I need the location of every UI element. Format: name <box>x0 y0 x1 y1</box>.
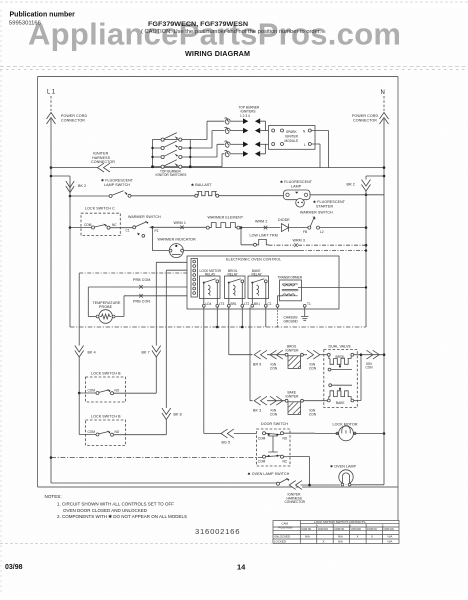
wire lamp to N drop <box>351 434 384 485</box>
svg-text:LAMP SWITCH: LAMP SWITCH <box>104 183 130 187</box>
svg-text:✱ FLUORESCENT: ✱ FLUORESCENT <box>280 180 313 184</box>
svg-text:BR 2: BR 2 <box>347 183 355 187</box>
wire warmer indicator drop <box>151 227 153 250</box>
scan artifact line below title <box>0 66 468 68</box>
svg-text:CON: CON <box>270 366 278 370</box>
EOC bottom terminals <box>202 302 271 307</box>
svg-text:COM NC: COM NC <box>301 528 311 531</box>
svg-text:NO: NO <box>115 389 120 393</box>
dual valve bake coil <box>327 387 353 405</box>
svg-text:CONNECTOR: CONNECTOR <box>285 500 306 504</box>
svg-text:COM: COM <box>258 459 266 463</box>
L1 lead-in dashed wire <box>50 96 52 111</box>
svg-text:COM: COM <box>88 389 96 393</box>
lock switch B labels COM NO <box>88 389 120 393</box>
svg-text:WARMER INDICATOR: WARMER INDICATOR <box>158 238 197 242</box>
spark igniter module U1 <box>269 126 316 150</box>
warmer element R1 <box>206 223 240 230</box>
svg-text:B: B <box>349 524 351 528</box>
connector IGN CON bake (chevrons) <box>270 396 283 405</box>
svg-text:A: A <box>316 524 318 528</box>
igniter harness connector label <box>91 152 115 165</box>
bake igniter E2 (hatched) <box>285 399 303 414</box>
door switch box (dashed) <box>257 429 291 466</box>
svg-text:FGF379WECN, FGF379WESN: FGF379WECN, FGF379WESN <box>148 21 248 28</box>
svg-text:N: N <box>381 90 385 96</box>
wire EOC terminal to lock circuit 1 <box>156 262 191 393</box>
node valve link dot <box>360 353 363 356</box>
svg-text:03/98: 03/98 <box>5 564 23 571</box>
svg-text:( CAUTION: Use the part number: ( CAUTION: Use the part number and not t… <box>141 29 321 35</box>
oven lamp DS3 <box>339 470 353 486</box>
transformer ground terminal <box>276 304 279 307</box>
electronic oven control box <box>187 256 339 309</box>
svg-text:1 2 3 4: 1 2 3 4 <box>240 114 250 118</box>
door switch upper labels COM NO <box>258 436 288 440</box>
wire switch row2 to igniter 2 <box>190 131 224 148</box>
svg-text:COM: COM <box>88 430 96 434</box>
node transformer N dot <box>365 286 367 288</box>
igniter 1 (coil and spark gap) <box>225 118 266 131</box>
svg-text:NC: NC <box>283 459 288 463</box>
wire switch row1 to igniter 1 <box>190 121 224 139</box>
svg-text:14: 14 <box>237 563 246 572</box>
svg-text:LOCKED: LOCKED <box>274 539 286 543</box>
lock motor switch contacts table <box>273 521 399 544</box>
svg-text:LD4: LD4 <box>206 302 212 306</box>
top burner ignitor switches box <box>153 140 191 167</box>
power cord connector L1 (chevron) <box>47 113 56 125</box>
svg-text:CONNECTOR: CONNECTOR <box>353 119 377 123</box>
svg-text:CONNECTOR: CONNECTOR <box>91 160 115 164</box>
svg-text:BK1: BK1 <box>254 302 260 306</box>
connector BG 5 (chevrons) <box>221 429 234 438</box>
wire N bus vertical <box>383 119 385 434</box>
wire switch row4 to igniter 4 <box>190 154 224 167</box>
wire module L drop <box>311 144 320 168</box>
svg-text:WRM 1: WRM 1 <box>174 221 186 225</box>
wire probe con <box>116 296 192 317</box>
svg-text:PROBE: PROBE <box>99 305 113 309</box>
spark igniter module label <box>285 130 299 143</box>
wire bottom bus (dash-dot) <box>51 457 263 459</box>
connector igniter harness (chevrons) <box>289 481 302 490</box>
svg-text:BR1: BR1 <box>231 302 237 306</box>
svg-text:BK 2: BK 2 <box>78 184 86 188</box>
svg-text:LOCK SWITCH B: LOCK SWITCH B <box>91 415 121 419</box>
svg-text:WARMER ELEMENT: WARMER ELEMENT <box>208 216 244 220</box>
svg-text:LT3: LT3 <box>219 302 224 306</box>
wire valve right link <box>354 355 361 401</box>
svg-text:COM: COM <box>258 436 266 440</box>
label IGN CON bake valve side <box>309 409 317 417</box>
warmer cutoff terminal labels FB L2 <box>303 230 324 234</box>
chassis bus (dash-dot) <box>70 326 366 328</box>
door switch upper contacts <box>263 432 316 436</box>
wire door NC to lamp row <box>288 457 310 486</box>
wire L1 to lamp-switch branch <box>51 176 70 196</box>
node junction lamp-switch <box>69 195 72 198</box>
connector BK 7 (chevron down) <box>152 346 161 358</box>
ballast L1 (inductor) <box>195 191 219 197</box>
label IGN CON broil <box>270 363 278 371</box>
svg-text:POWER CORD: POWER CORD <box>61 114 87 118</box>
connector BR 2 (chevron down) <box>362 180 371 192</box>
wire branch to lock switch C <box>69 196 71 228</box>
wire to dual valve <box>320 354 328 356</box>
connector BR 9 (chevrons on broil row) <box>254 350 267 359</box>
svg-text:316002166: 316002166 <box>195 527 240 536</box>
svg-text:ELECTRONIC OVEN CONTROL: ELECTRONIC OVEN CONTROL <box>226 257 281 261</box>
wire low limit branch <box>241 228 254 245</box>
wire valve to N bus <box>361 354 384 356</box>
node L1 bottom junction <box>50 456 53 459</box>
svg-text:POWER CORD: POWER CORD <box>352 114 378 118</box>
switch row 4 <box>161 160 182 169</box>
connector BK 8 (chevron down) <box>162 408 171 420</box>
scan artifact line above frame <box>0 69 468 71</box>
bake igniter label <box>286 391 300 399</box>
wire ballast to fluorescent lamp <box>219 195 283 197</box>
svg-text:LOCK SWITCH C: LOCK SWITCH C <box>85 207 115 211</box>
svg-text:X: X <box>323 539 325 543</box>
svg-text:✱ FLUORESCENT: ✱ FLUORESCENT <box>313 200 346 204</box>
svg-text:DOOR SWITCH: DOOR SWITCH <box>261 422 288 426</box>
wire probe dashed feed <box>79 272 191 274</box>
svg-text:✱ OVEN LAMP SWITCH: ✱ OVEN LAMP SWITCH <box>248 472 290 476</box>
node chassis bus dots <box>216 326 244 329</box>
svg-text:COM: COM <box>84 223 92 227</box>
svg-text:BAKE: BAKE <box>336 401 345 405</box>
svg-text:2. COMPONENTS WITH ✱ DO NOT A: 2. COMPONENTS WITH ✱ DO NOT APPEAR ON AL… <box>57 514 187 519</box>
svg-text:T1: T1 <box>307 302 311 306</box>
label IGN CON valve side <box>309 363 317 371</box>
switch row 2 <box>153 141 191 150</box>
svg-text:N/A: N/A <box>388 535 393 539</box>
spark igniter module terminals left <box>272 129 284 146</box>
svg-text:PRB COM: PRB COM <box>133 278 150 282</box>
svg-text:COM NC: COM NC <box>367 528 377 531</box>
wire relay LT1 drop <box>216 307 218 327</box>
lock motor B1 <box>336 426 356 441</box>
wire element to diode <box>240 227 281 229</box>
top burner igniters label <box>239 106 260 118</box>
svg-text:WIRING DIAGRAM: WIRING DIAGRAM <box>185 49 250 58</box>
wire aux stub drop <box>265 307 267 327</box>
svg-text:CON: CON <box>270 412 278 416</box>
power cord connector N (chevron) <box>380 113 389 125</box>
wire L1 bus vertical <box>50 119 52 483</box>
scan artifact line bottom <box>0 543 272 545</box>
svg-text:NOTES:: NOTES: <box>45 494 62 499</box>
wire L1 bus to oven lamp switch <box>51 482 277 484</box>
power cord connector L1 label <box>61 114 87 123</box>
node box corner dots <box>151 147 192 168</box>
oven lamp switch S3 <box>277 478 290 485</box>
svg-text:L: L <box>304 143 306 147</box>
wire lock switch coms link <box>78 393 80 435</box>
svg-text:COM NO: COM NO <box>384 528 394 531</box>
warmer cutoff switch <box>308 216 366 229</box>
warmer indicator DS2 <box>152 244 183 258</box>
svg-text:WARMER SWITCH: WARMER SWITCH <box>300 211 333 215</box>
igniter 4 (coil and spark gap) <box>225 144 266 157</box>
lock switch B contacts <box>79 389 156 395</box>
wire to warmer element <box>152 226 206 228</box>
igniter 3 (coil and spark gap) <box>225 141 269 147</box>
bake relay K3 <box>248 276 269 305</box>
dual valve box (dashed) <box>324 350 358 408</box>
svg-text:FB: FB <box>303 230 307 234</box>
svg-text:N/A: N/A <box>338 539 343 543</box>
wire N to inner branch <box>366 176 384 327</box>
svg-text:IGNITER: IGNITER <box>285 135 299 139</box>
svg-text:DUAL VALVE: DUAL VALVE <box>329 344 352 348</box>
svg-text:BK 8: BK 8 <box>174 413 182 417</box>
wire lamp to N branch <box>310 194 384 196</box>
svg-text:BG 5: BG 5 <box>222 441 231 445</box>
svg-text:LOW LIMIT TRM: LOW LIMIT TRM <box>250 234 278 238</box>
lock switch C labels COM NC <box>84 223 117 227</box>
connector BK 3 (chevrons on bake row) <box>254 396 267 405</box>
connector BK 2 (chevron down) <box>66 181 74 193</box>
svg-text:COM NC: COM NC <box>334 528 344 531</box>
svg-text:NO: NO <box>115 430 120 434</box>
svg-text:CON: CON <box>309 366 317 370</box>
broil relay K2 <box>225 276 246 305</box>
wire probe dashed vertical <box>78 273 80 393</box>
lock switch B box (dashed) <box>86 377 126 402</box>
igniter harness connector label <box>285 493 306 505</box>
connector IGN CON broil (chevrons) <box>270 350 283 359</box>
wire broil relay drop <box>229 307 253 355</box>
svg-text:IGNITER: IGNITER <box>286 348 300 352</box>
svg-text:COM NO: COM NO <box>318 528 328 531</box>
connector IGN CON valve side (chevrons) <box>307 350 320 359</box>
wire module N to neutral row <box>311 131 328 168</box>
door switch actuator link <box>268 436 277 452</box>
node junction L1/neutral-row <box>50 166 53 169</box>
svg-text:C1: C1 <box>268 302 272 306</box>
svg-text:LOCK SWITCH B: LOCK SWITCH B <box>91 372 121 376</box>
dual valve middle terminals <box>328 368 352 386</box>
svg-text:WRM 2: WRM 2 <box>255 220 267 224</box>
svg-text:C1: C1 <box>126 229 130 233</box>
diode D1 <box>282 224 308 232</box>
lock switch A labels COM NO <box>88 430 120 434</box>
svg-text:N/A: N/A <box>338 535 343 539</box>
fluorescent lamp switch S1 <box>70 191 195 198</box>
svg-text:LAMP: LAMP <box>291 185 302 189</box>
svg-text:X: X <box>357 535 359 539</box>
svg-text:LT2: LT2 <box>244 302 249 306</box>
svg-text:MODULE: MODULE <box>285 139 299 143</box>
splice PRB COM <box>139 285 142 289</box>
wire relay to door switch row <box>204 433 257 435</box>
switch row 3 <box>153 150 191 159</box>
spark igniter module terminals right with N and L <box>308 129 311 146</box>
scan artifact line top <box>0 1 468 3</box>
wire branch to chassis bus <box>69 228 71 328</box>
wire probe com <box>88 287 191 317</box>
svg-text:PRB CON: PRB CON <box>133 300 150 304</box>
lock motor relay K1 <box>200 276 221 305</box>
svg-text:X: X <box>371 535 373 539</box>
svg-text:BK 3: BK 3 <box>253 409 261 413</box>
svg-text:P2: P2 <box>155 229 159 233</box>
lock switch C contacts <box>70 224 133 230</box>
svg-text:TRANSFORMER: TRANSFORMER <box>278 275 303 279</box>
wire broil igniter to valve connector <box>303 354 307 356</box>
svg-text:COM NO: COM NO <box>351 528 361 531</box>
node element junction <box>240 226 243 229</box>
warmer switch S2 <box>133 221 151 237</box>
label IGN CON right <box>366 362 374 370</box>
fluorescent starter <box>296 199 305 208</box>
lock switch C box (dashed) <box>81 213 120 235</box>
bake relay K3 label <box>252 269 263 277</box>
svg-text:L2: L2 <box>320 230 324 234</box>
node lock switch B com junction <box>78 392 81 395</box>
fluorescent starter label <box>313 200 346 209</box>
node junction L1 y=176 <box>50 175 53 178</box>
splice WRM3 <box>294 243 297 247</box>
chassis ground label <box>284 316 299 324</box>
diagram border frame <box>38 77 399 544</box>
svg-text:IGNITER: IGNITER <box>286 394 300 398</box>
svg-text:BK 7: BK 7 <box>142 351 150 355</box>
igniter 2 (coil and spark gap) <box>225 127 269 133</box>
broil igniter label <box>286 345 300 353</box>
svg-text:WRM 3: WRM 3 <box>293 239 305 243</box>
connector IGN CON right (chevrons to N) <box>367 350 380 359</box>
node inner branch dots <box>365 194 368 247</box>
svg-text:BR 9: BR 9 <box>253 363 261 367</box>
EOC terminal strip <box>191 259 198 298</box>
wire top row y=167.6 <box>51 167 384 169</box>
wire transformer drop (dotted) <box>277 307 279 327</box>
connector BK 4 (chevron down) <box>75 346 84 358</box>
igniter harness connector (top row chevrons) <box>98 163 111 172</box>
switch row 1 <box>161 133 182 142</box>
wire chevrons to bake igniter <box>267 400 286 402</box>
warmer switch terminal labels C1 P2 <box>126 229 159 233</box>
wire switch row3 to igniter 3 <box>190 144 224 157</box>
svg-text:N/A: N/A <box>388 539 393 543</box>
door switch lower contacts <box>263 455 288 458</box>
T1 chassis terminal <box>303 302 311 307</box>
fluorescent lamp label <box>280 180 313 189</box>
broil relay K2 label <box>228 269 239 277</box>
svg-text:OVEN DOOR CLOSED AND UNLOCKED: OVEN DOOR CLOSED AND UNLOCKED <box>63 508 148 513</box>
svg-text:IGNITOR SWITCHES: IGNITOR SWITCHES <box>156 173 187 177</box>
broil igniter E1 (hatched) <box>285 353 303 368</box>
wire connector to lamp <box>301 484 341 486</box>
low limit thermostat <box>254 239 269 246</box>
wire indicator to N branch <box>184 250 301 252</box>
lock switch A contacts <box>79 431 166 437</box>
chassis ground symbol <box>301 307 308 320</box>
splice WRM2 <box>264 226 267 230</box>
dual valve broil coil <box>327 353 353 367</box>
node warmer switch junction <box>151 226 154 229</box>
label IGN CON bake <box>270 409 278 417</box>
svg-text:DIODE: DIODE <box>278 218 290 222</box>
node N bus dots <box>383 166 386 435</box>
svg-text:NC: NC <box>112 223 117 227</box>
node indicator N dot <box>365 249 367 251</box>
wire relay LT2 drop <box>241 307 243 327</box>
lock switch A box (dashed) <box>86 420 126 446</box>
splice PRB CON <box>139 294 142 298</box>
svg-text:UNLOCKED: UNLOCKED <box>274 535 290 539</box>
wire lock motor leads <box>315 433 384 435</box>
fluorescent lamp switch label <box>101 179 134 188</box>
wire chevrons to broil igniter <box>267 354 286 356</box>
node lock switch C junction <box>69 226 72 229</box>
node lamp feed junction <box>308 484 311 487</box>
wire bake igniter to valve <box>303 400 327 402</box>
temperature probe RT1 <box>88 310 115 324</box>
svg-text:CON: CON <box>366 366 374 370</box>
svg-text:N/A: N/A <box>305 535 310 539</box>
fluorescent lamp DS1 <box>284 190 311 200</box>
svg-text:LOCK MOTOR SWITCH CONTACTS: LOCK MOTOR SWITCH CONTACTS <box>314 520 365 524</box>
svg-text:✱ BALLAST: ✱ BALLAST <box>191 183 212 187</box>
svg-text:GROUND: GROUND <box>284 319 299 323</box>
top burner ignitor switches label <box>156 169 187 177</box>
door switch lower labels COM NC <box>258 459 288 463</box>
scan artifact left edge <box>0 10 2 595</box>
svg-text:L 1: L 1 <box>47 90 56 96</box>
svg-text:CONNECTOR: CONNECTOR <box>61 119 85 123</box>
svg-text:BK 4: BK 4 <box>88 351 96 355</box>
svg-text:Publication number: Publication number <box>10 12 76 19</box>
svg-text:WARMER SWITCH: WARMER SWITCH <box>128 215 161 219</box>
N lead-in dashed wire <box>383 96 385 111</box>
wire low limit to N branch (dash-dot) <box>269 244 367 246</box>
temperature probe label <box>93 301 121 309</box>
splice WRM1 <box>180 226 183 230</box>
power cord connector N label <box>352 114 378 123</box>
lock motor relay K1 label <box>200 269 222 277</box>
svg-text:STARTER: STARTER <box>316 205 333 209</box>
svg-text:SPARK: SPARK <box>286 130 297 134</box>
wire transformer secondary to N branch <box>298 287 366 289</box>
svg-text:NO: NO <box>283 436 288 440</box>
svg-text:✱ OVEN LAMP: ✱ OVEN LAMP <box>330 465 357 469</box>
svg-text:✱ FLUORESCENT: ✱ FLUORESCENT <box>101 179 134 183</box>
wire bake relay drop <box>250 307 253 401</box>
wire lock motor relay drop to door switch <box>203 307 205 433</box>
transformer T1 <box>278 280 302 304</box>
svg-text:CON: CON <box>309 412 317 416</box>
svg-text:5995301166: 5995301166 <box>9 21 41 27</box>
svg-text:POSITION: POSITION <box>279 525 293 529</box>
wire EOC terminal to lock circuit 2 <box>166 270 191 434</box>
svg-text:1. CIRCUIT SHOWN WITH ALL CON: 1. CIRCUIT SHOWN WITH ALL CONTROLS SET T… <box>57 502 174 507</box>
